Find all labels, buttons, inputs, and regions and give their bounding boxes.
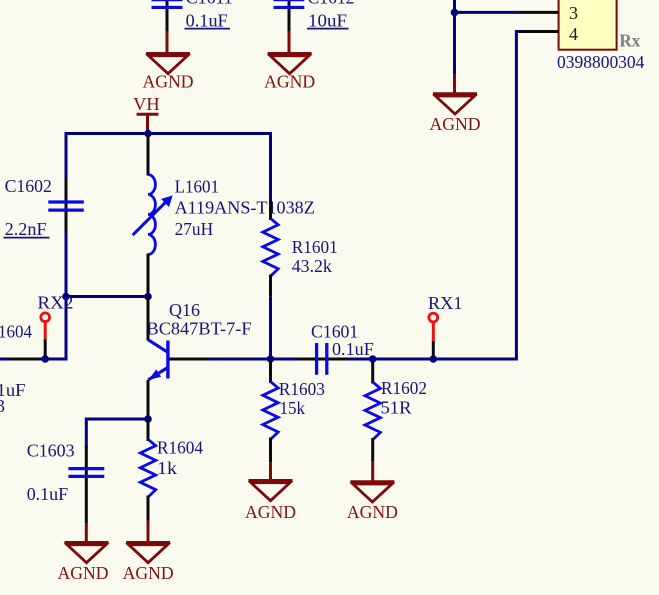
node junction emitter	[144, 415, 152, 423]
wire vertical to AGND (top right)	[453, 0, 456, 75]
node junction R1602	[369, 355, 377, 363]
wire tank rail	[66, 295, 148, 298]
capacitor C1603	[85, 446, 88, 523]
svg-text:R1602: R1602	[381, 378, 427, 398]
ground AGND under C1611	[166, 32, 169, 53]
svg-text:3: 3	[0, 396, 5, 416]
svg-text:51R: 51R	[381, 398, 412, 418]
svg-text:43.2k: 43.2k	[292, 256, 332, 276]
svg-text:AGND: AGND	[58, 563, 109, 583]
ground AGND under R1603	[269, 462, 272, 480]
svg-text:AGND: AGND	[123, 563, 174, 583]
svg-text:AGND: AGND	[143, 72, 194, 92]
wire base to C1601	[209, 358, 297, 361]
pin 3 lead	[519, 11, 559, 14]
ground AGND under C1612	[288, 32, 291, 53]
wire C1601 to RX1	[348, 358, 434, 361]
svg-text:0.1uF: 0.1uF	[27, 484, 68, 504]
svg-text:R1604: R1604	[157, 438, 203, 458]
pin 4 lead	[519, 30, 559, 33]
node junction RX2	[41, 355, 49, 363]
node junction tank/collector	[144, 293, 152, 301]
svg-text:AGND: AGND	[264, 72, 315, 92]
resistor R1602	[371, 359, 374, 384]
svg-text:C1611: C1611	[186, 0, 233, 8]
svg-text:2.2nF: 2.2nF	[5, 219, 47, 239]
svg-text:15k: 15k	[280, 398, 306, 418]
svg-text:Rx: Rx	[619, 31, 640, 51]
wire top rail	[66, 132, 271, 135]
node junction VH/top rail	[144, 130, 152, 138]
node junction RX1	[430, 355, 438, 363]
wire junction to pin 3	[453, 11, 519, 14]
ground AGND under R1602	[371, 461, 374, 481]
node junction base/R1601/R1603	[267, 355, 275, 363]
svg-text:RX1: RX1	[428, 293, 463, 313]
inductor L1601	[147, 134, 150, 176]
capacitor C1612	[288, 0, 291, 32]
ground AGND under C1603	[85, 523, 88, 543]
svg-text:R1601: R1601	[292, 237, 338, 257]
capacitor C1602	[65, 178, 68, 232]
wire right branch down to R1601	[269, 132, 272, 198]
svg-text:1k: 1k	[157, 458, 177, 478]
pin lead from left connector	[9, 358, 41, 361]
svg-text:C1603: C1603	[27, 441, 75, 461]
resistor R1601	[269, 198, 272, 220]
svg-text:Q16: Q16	[169, 300, 200, 320]
svg-text:A119ANS-T1038Z: A119ANS-T1038Z	[175, 198, 315, 218]
wire RX2 rail	[0, 358, 68, 361]
svg-text:0.1uF: 0.1uF	[332, 339, 374, 359]
svg-text:R1603: R1603	[279, 379, 325, 399]
svg-text:4: 4	[569, 24, 578, 44]
capacitor C1601	[297, 358, 349, 361]
connector P? yellow body	[559, 0, 617, 50]
wire emitter to C1603	[86, 419, 148, 448]
svg-text:C1612: C1612	[308, 0, 355, 8]
resistor R1604	[147, 419, 150, 441]
svg-text:AGND: AGND	[430, 114, 481, 134]
node junction at pin3 wire	[451, 9, 459, 17]
wire pin4 down right side	[433, 32, 519, 360]
svg-text:3: 3	[569, 3, 578, 23]
svg-text:27uH: 27uH	[175, 219, 214, 239]
wire R1601 to base rail	[269, 296, 272, 359]
svg-text:AGND: AGND	[245, 502, 296, 522]
svg-text:BC847BT-7-F: BC847BT-7-F	[147, 319, 252, 339]
svg-text:C1602: C1602	[5, 176, 52, 196]
svg-text:L1601: L1601	[175, 177, 220, 197]
svg-text:AGND: AGND	[347, 502, 398, 522]
transistor Q16	[147, 297, 150, 341]
svg-text:0.1uF: 0.1uF	[186, 11, 228, 31]
tuning arrow of L1601	[133, 200, 168, 235]
ground AGND top right	[453, 74, 456, 94]
capacitor C1611	[166, 0, 169, 32]
svg-text:1604: 1604	[0, 322, 32, 342]
svg-text:RX2: RX2	[37, 293, 73, 313]
ground AGND under R1604	[147, 521, 150, 543]
svg-text:10uF: 10uF	[308, 11, 347, 31]
wire left rail down	[65, 132, 68, 359]
svg-text:0398800304: 0398800304	[557, 52, 644, 72]
resistor R1603	[269, 359, 272, 383]
svg-text:VH: VH	[133, 94, 160, 114]
node junction left rail	[62, 293, 70, 301]
